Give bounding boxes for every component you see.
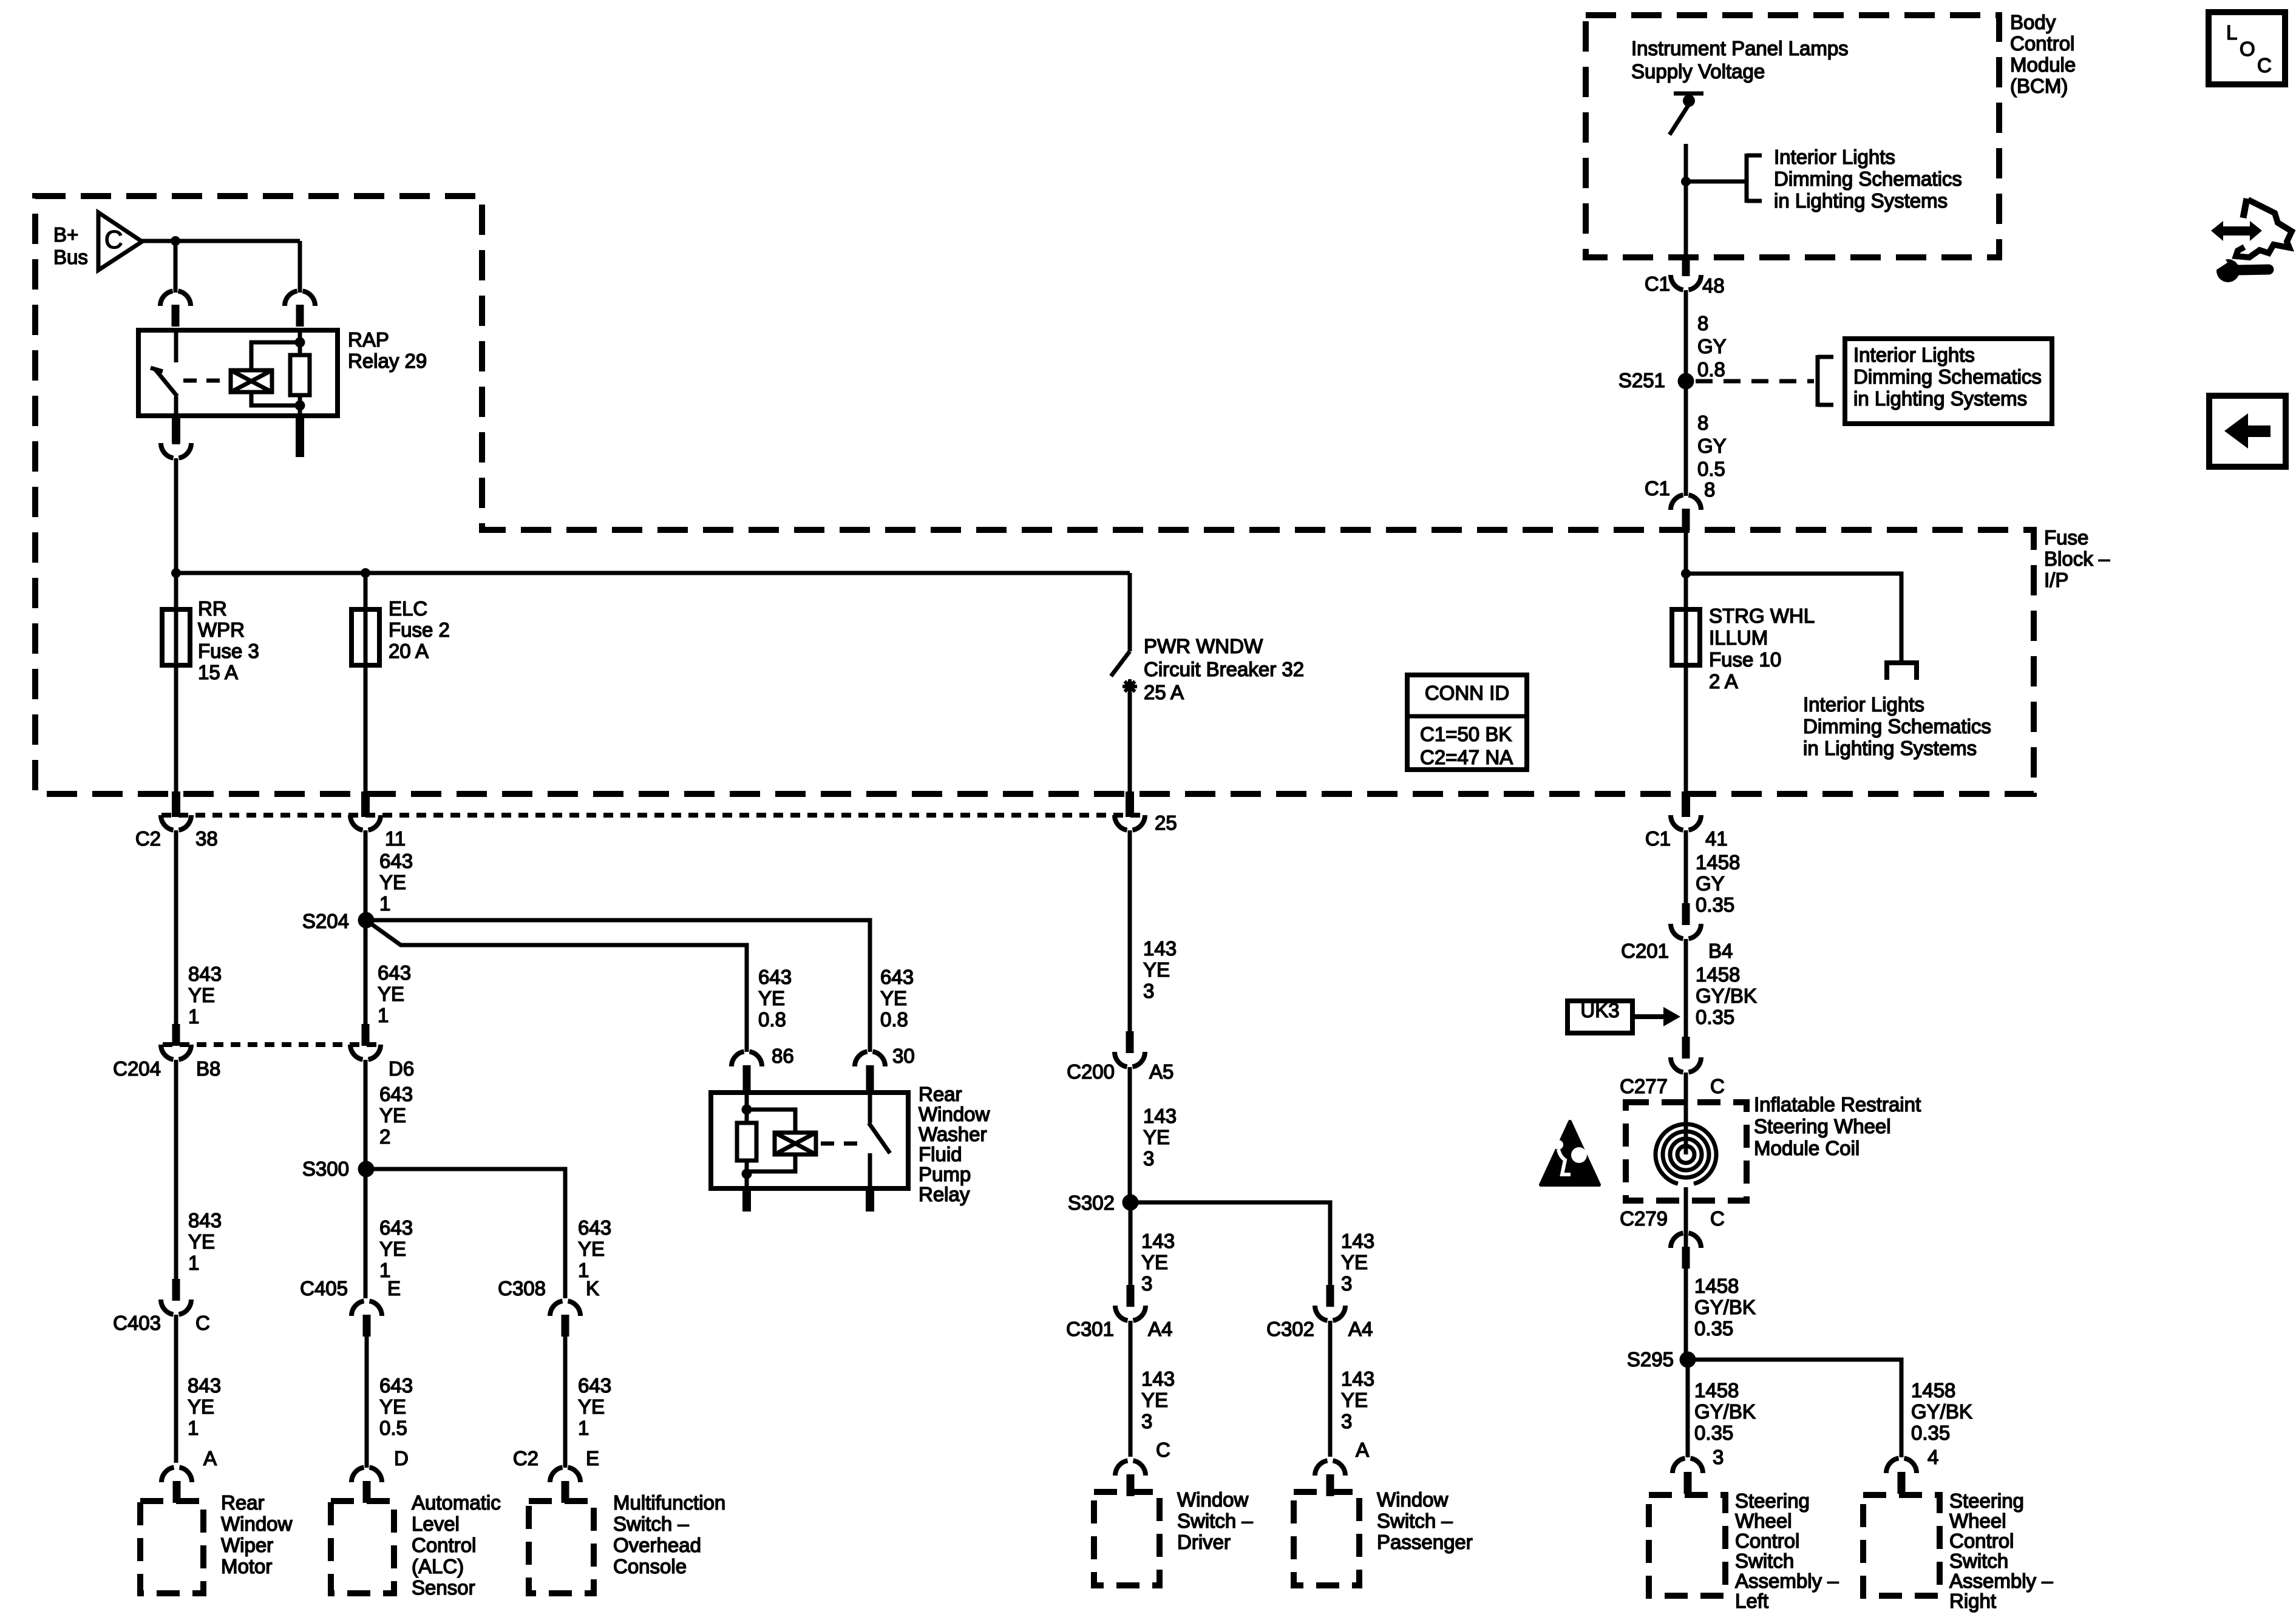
svg-text:643: 643 [378, 961, 411, 984]
svg-text:YE: YE [379, 871, 406, 893]
svg-text:8: 8 [1704, 478, 1715, 501]
svg-text:C308: C308 [498, 1277, 546, 1300]
svg-text:643: 643 [758, 966, 792, 988]
svg-text:B4: B4 [1708, 940, 1733, 962]
svg-text:S302: S302 [1068, 1191, 1115, 1214]
svg-text:S251: S251 [1618, 369, 1665, 391]
svg-text:YE: YE [880, 987, 907, 1009]
svg-text:D: D [394, 1447, 409, 1469]
svg-text:643: 643 [880, 966, 914, 988]
svg-text:C200: C200 [1067, 1060, 1115, 1083]
svg-text:3: 3 [1141, 1272, 1152, 1295]
svg-text:YE: YE [188, 1230, 215, 1253]
svg-text:1: 1 [188, 1252, 199, 1274]
svg-text:C405: C405 [300, 1277, 348, 1300]
svg-text:GY/BK: GY/BK [1694, 1296, 1756, 1318]
svg-text:UK3: UK3 [1580, 999, 1619, 1022]
svg-text:Dimming Schematics: Dimming Schematics [1803, 715, 1991, 737]
svg-text:Inflatable Restraint: Inflatable Restraint [1754, 1093, 1921, 1116]
svg-text:YE: YE [1143, 958, 1170, 981]
svg-text:PWR WNDW: PWR WNDW [1144, 635, 1263, 657]
svg-text:0.8: 0.8 [880, 1008, 908, 1031]
svg-text:C279: C279 [1620, 1207, 1668, 1230]
svg-text:0.5: 0.5 [1697, 458, 1725, 480]
svg-text:3: 3 [1713, 1446, 1724, 1468]
svg-text:Fuse 10: Fuse 10 [1709, 648, 1781, 671]
svg-text:Switch –: Switch – [613, 1513, 689, 1535]
svg-text:in Lighting Systems: in Lighting Systems [1853, 387, 2027, 410]
svg-text:C2: C2 [135, 827, 161, 850]
svg-text:ILLUM: ILLUM [1709, 626, 1768, 649]
svg-text:843: 843 [188, 1374, 221, 1397]
svg-text:D6: D6 [389, 1057, 414, 1080]
svg-text:CONN ID: CONN ID [1425, 682, 1509, 704]
svg-text:41: 41 [1705, 827, 1728, 850]
svg-text:Window: Window [221, 1513, 293, 1535]
svg-text:8: 8 [1697, 312, 1708, 334]
svg-text:YE: YE [379, 1238, 406, 1260]
svg-text:3: 3 [1143, 1147, 1154, 1170]
svg-text:Control: Control [412, 1534, 476, 1556]
svg-text:K: K [586, 1277, 599, 1300]
svg-text:YE: YE [1341, 1251, 1368, 1273]
svg-text:E: E [586, 1447, 599, 1469]
svg-text:4: 4 [1927, 1446, 1938, 1468]
svg-text:in Lighting Systems: in Lighting Systems [1774, 189, 1948, 212]
svg-text:Switch –: Switch – [1177, 1510, 1253, 1532]
svg-text:Level: Level [412, 1513, 460, 1535]
svg-text:Motor: Motor [221, 1555, 272, 1578]
svg-text:YE: YE [1143, 1126, 1170, 1148]
svg-text:Module: Module [2010, 53, 2076, 76]
svg-text:GY/BK: GY/BK [1696, 985, 1757, 1007]
svg-text:YE: YE [758, 987, 785, 1009]
svg-text:A: A [203, 1447, 217, 1469]
svg-text:1458: 1458 [1694, 1379, 1739, 1401]
svg-text:Control: Control [1735, 1530, 1799, 1552]
svg-text:643: 643 [578, 1216, 611, 1239]
svg-text:1: 1 [378, 1004, 389, 1026]
svg-text:GY: GY [1696, 872, 1725, 895]
svg-text:S204: S204 [302, 910, 349, 932]
svg-text:Assembly –: Assembly – [1735, 1570, 1839, 1592]
svg-text:Control: Control [1949, 1530, 2014, 1552]
svg-text:Switch: Switch [1949, 1550, 2008, 1572]
svg-text:1458: 1458 [1911, 1379, 1955, 1401]
svg-text:Wiper: Wiper [221, 1534, 273, 1556]
svg-text:1: 1 [188, 1005, 199, 1028]
svg-text:Window: Window [1177, 1488, 1249, 1511]
svg-text:Interior Lights: Interior Lights [1803, 693, 1924, 716]
svg-text:143: 143 [1341, 1368, 1374, 1390]
svg-text:Fuse 3: Fuse 3 [198, 640, 259, 662]
svg-text:L: L [2226, 21, 2237, 44]
svg-text:O: O [2240, 38, 2255, 60]
svg-text:A4: A4 [1348, 1318, 1373, 1340]
svg-text:Dimming Schematics: Dimming Schematics [1774, 168, 1962, 190]
svg-text:Dimming Schematics: Dimming Schematics [1853, 365, 2042, 388]
svg-text:Control: Control [2010, 32, 2074, 55]
svg-text:643: 643 [379, 850, 413, 872]
svg-text:25: 25 [1155, 812, 1177, 834]
svg-text:C301: C301 [1066, 1318, 1114, 1340]
svg-text:Passenger: Passenger [1377, 1531, 1473, 1553]
svg-text:YE: YE [188, 1395, 214, 1418]
svg-text:Switch: Switch [1735, 1550, 1794, 1572]
svg-text:1458: 1458 [1694, 1275, 1739, 1297]
svg-text:B8: B8 [196, 1057, 220, 1080]
svg-text:Right: Right [1949, 1590, 1996, 1612]
svg-text:E: E [387, 1277, 401, 1300]
svg-text:Pump: Pump [919, 1163, 971, 1185]
svg-text:Washer: Washer [919, 1123, 987, 1145]
svg-text:143: 143 [1341, 1230, 1374, 1252]
svg-text:YE: YE [1341, 1389, 1368, 1411]
svg-text:GY/BK: GY/BK [1694, 1400, 1756, 1423]
svg-text:C: C [104, 225, 123, 254]
svg-text:25 A: 25 A [1144, 681, 1184, 703]
svg-text:2 A: 2 A [1709, 670, 1738, 693]
svg-text:143: 143 [1143, 937, 1177, 960]
svg-text:A5: A5 [1149, 1060, 1173, 1083]
svg-text:YE: YE [578, 1238, 605, 1260]
svg-text:C: C [2257, 54, 2272, 76]
svg-text:143: 143 [1141, 1368, 1175, 1390]
svg-text:1: 1 [379, 892, 390, 915]
svg-text:WPR: WPR [198, 619, 245, 641]
svg-text:GY: GY [1697, 435, 1727, 457]
svg-text:C201: C201 [1621, 940, 1669, 962]
svg-text:Relay: Relay [919, 1183, 970, 1205]
svg-text:YE: YE [188, 984, 215, 1006]
svg-text:STRG WHL: STRG WHL [1709, 605, 1815, 627]
svg-text:0.35: 0.35 [1696, 893, 1734, 916]
svg-text:RAP: RAP [348, 328, 389, 351]
svg-text:15 A: 15 A [198, 661, 238, 683]
svg-text:0.5: 0.5 [379, 1417, 407, 1439]
svg-text:1: 1 [188, 1417, 199, 1439]
svg-text:ELC: ELC [389, 597, 427, 620]
svg-text:Body: Body [2010, 11, 2056, 33]
svg-text:Window: Window [1377, 1488, 1449, 1511]
svg-text:Relay 29: Relay 29 [348, 350, 427, 372]
svg-text:YE: YE [1141, 1251, 1168, 1273]
svg-text:0.8: 0.8 [758, 1008, 786, 1031]
svg-text:in Lighting Systems: in Lighting Systems [1803, 737, 1977, 759]
svg-text:C277: C277 [1620, 1075, 1668, 1097]
svg-text:B+: B+ [53, 223, 78, 246]
svg-text:Interior Lights: Interior Lights [1853, 344, 1975, 366]
svg-text:643: 643 [379, 1374, 413, 1397]
svg-text:C403: C403 [113, 1312, 161, 1334]
svg-text:C2=47 NA: C2=47 NA [1420, 746, 1513, 768]
svg-text:C: C [195, 1312, 210, 1334]
svg-text:3: 3 [1143, 980, 1154, 1002]
svg-text:0.8: 0.8 [1697, 358, 1725, 381]
svg-text:843: 843 [188, 1209, 222, 1232]
svg-text:S300: S300 [302, 1157, 349, 1180]
svg-text:643: 643 [379, 1083, 413, 1105]
svg-text:Console: Console [613, 1555, 687, 1578]
svg-text:143: 143 [1143, 1105, 1177, 1127]
svg-text:1458: 1458 [1696, 851, 1740, 873]
svg-text:YE: YE [578, 1395, 605, 1418]
svg-text:I/P: I/P [2044, 569, 2068, 591]
svg-text:(ALC): (ALC) [412, 1555, 464, 1578]
svg-text:Block –: Block – [2044, 547, 2110, 570]
svg-text:Circuit Breaker 32: Circuit Breaker 32 [1144, 658, 1304, 680]
svg-text:643: 643 [578, 1374, 611, 1397]
svg-text:Driver: Driver [1177, 1531, 1231, 1553]
svg-text:RR: RR [198, 597, 227, 620]
svg-text:Multifunction: Multifunction [613, 1491, 725, 1514]
svg-text:38: 38 [195, 827, 218, 850]
svg-text:3: 3 [1341, 1272, 1352, 1295]
svg-text:YE: YE [1141, 1389, 1168, 1411]
svg-text:20 A: 20 A [389, 640, 429, 662]
svg-text:YE: YE [378, 983, 404, 1005]
svg-text:Steering Wheel: Steering Wheel [1754, 1115, 1891, 1137]
svg-text:YE: YE [379, 1395, 406, 1418]
svg-text:Fluid: Fluid [919, 1143, 962, 1165]
svg-text:Module Coil: Module Coil [1754, 1137, 1860, 1159]
svg-text:Instrument Panel Lamps: Instrument Panel Lamps [1631, 37, 1849, 59]
svg-text:A: A [1356, 1439, 1369, 1461]
svg-text:Fuse: Fuse [2044, 526, 2088, 549]
svg-text:YE: YE [379, 1104, 406, 1127]
svg-text:C1: C1 [1645, 827, 1671, 850]
svg-text:C2: C2 [513, 1447, 538, 1469]
svg-text:843: 843 [188, 963, 222, 985]
svg-text:C: C [1710, 1075, 1725, 1097]
svg-text:2: 2 [379, 1125, 390, 1148]
svg-text:Sensor: Sensor [412, 1576, 475, 1599]
svg-text:GY/BK: GY/BK [1911, 1400, 1972, 1423]
svg-text:Overhead: Overhead [613, 1534, 701, 1556]
svg-text:Bus: Bus [53, 246, 88, 268]
svg-text:0.35: 0.35 [1911, 1422, 1950, 1444]
svg-text:S295: S295 [1627, 1348, 1674, 1371]
svg-text:Fuse 2: Fuse 2 [389, 619, 450, 641]
svg-text:1: 1 [578, 1417, 589, 1439]
svg-text:C1: C1 [1645, 477, 1670, 500]
svg-text:Steering: Steering [1949, 1490, 2024, 1512]
svg-text:A4: A4 [1148, 1318, 1172, 1340]
svg-text:C: C [1156, 1439, 1170, 1461]
svg-text:Steering: Steering [1735, 1490, 1810, 1512]
svg-text:11: 11 [385, 827, 406, 850]
svg-text:Wheel: Wheel [1949, 1510, 2006, 1532]
svg-text:643: 643 [379, 1216, 413, 1239]
svg-text:Switch –: Switch – [1377, 1510, 1453, 1532]
svg-text:30: 30 [892, 1045, 915, 1067]
svg-text:Assembly –: Assembly – [1949, 1570, 2053, 1592]
svg-text:Automatic: Automatic [412, 1491, 501, 1514]
svg-text:(BCM): (BCM) [2010, 75, 2068, 97]
svg-text:8: 8 [1697, 412, 1708, 434]
svg-text:1458: 1458 [1696, 963, 1740, 986]
svg-text:GY: GY [1697, 335, 1727, 358]
svg-text:0.35: 0.35 [1696, 1006, 1734, 1028]
svg-text:Window: Window [919, 1103, 990, 1125]
svg-text:143: 143 [1141, 1230, 1175, 1252]
svg-text:0.35: 0.35 [1694, 1422, 1733, 1444]
svg-text:C1: C1 [1645, 273, 1670, 295]
svg-text:Interior Lights: Interior Lights [1774, 146, 1895, 168]
svg-text:0.35: 0.35 [1694, 1317, 1733, 1340]
svg-text:Rear: Rear [919, 1083, 962, 1105]
svg-text:C204: C204 [113, 1057, 161, 1080]
svg-text:48: 48 [1702, 274, 1725, 297]
svg-text:C1=50 BK: C1=50 BK [1420, 723, 1512, 745]
svg-text:86: 86 [772, 1045, 794, 1067]
svg-text:Left: Left [1735, 1590, 1768, 1612]
svg-text:3: 3 [1341, 1410, 1352, 1432]
svg-text:Rear: Rear [221, 1491, 265, 1514]
svg-text:Wheel: Wheel [1735, 1510, 1792, 1532]
svg-text:C302: C302 [1266, 1318, 1314, 1340]
svg-text:Supply Voltage: Supply Voltage [1631, 60, 1765, 83]
svg-text:C: C [1710, 1207, 1725, 1230]
svg-text:3: 3 [1141, 1410, 1152, 1432]
